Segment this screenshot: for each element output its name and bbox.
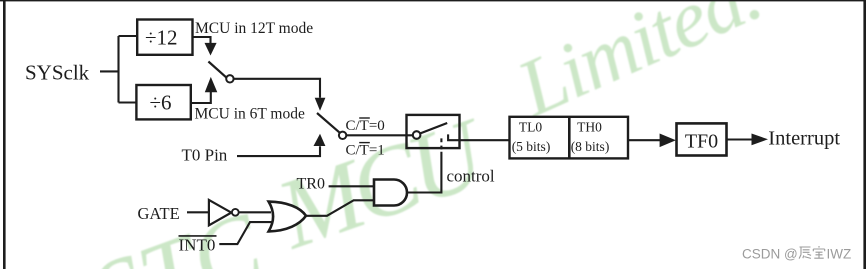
wire TH0 to TF0 <box>628 139 661 141</box>
svg-text:MCU in 12T mode: MCU in 12T mode <box>195 20 313 37</box>
wire TF0 to Interrupt <box>727 138 754 140</box>
TF0 box <box>677 123 727 155</box>
svg-text:INT0: INT0 <box>179 235 216 254</box>
svg-text:control: control <box>447 167 495 186</box>
svg-text:Interrupt: Interrupt <box>768 128 840 150</box>
svg-text:C/T=0: C/T=0 <box>346 118 385 134</box>
svg-text:C/T=1: C/T=1 <box>346 143 385 159</box>
svg-text:IWZ: IWZ <box>827 246 852 261</box>
divider box /6 <box>136 85 190 119</box>
TL0 TH0 register box <box>510 117 629 159</box>
svg-text:(8 bits): (8 bits) <box>571 139 610 154</box>
wire branch vertical <box>117 36 119 103</box>
arrowhead down into switch2 <box>315 98 326 111</box>
wire SYSclk to branch <box>100 70 119 72</box>
wire branch to div6 <box>119 101 137 103</box>
frame left border <box>3 0 6 269</box>
wire switch1 to switch2 <box>234 79 320 98</box>
control box <box>407 115 460 148</box>
svg-text:÷6: ÷6 <box>149 90 171 114</box>
arrowhead down from div12 into switch1 <box>205 43 217 56</box>
arrowhead up from div6 into switch1 <box>205 77 218 92</box>
AND gate U3 <box>374 180 407 206</box>
arrowhead to Interrupt <box>752 134 769 146</box>
wire OR output to AND input <box>306 200 374 216</box>
control switch lever <box>420 123 447 133</box>
frame top border <box>0 0 866 1</box>
svg-text:÷12: ÷12 <box>145 26 178 50</box>
wire control contact to TL0 <box>448 134 509 140</box>
wire AND output to control linkage <box>407 152 441 193</box>
wire T0 Pin <box>237 146 320 156</box>
control switch pivot circle <box>413 131 421 139</box>
switch2 lever <box>317 113 340 133</box>
frame right border <box>863 0 866 269</box>
TL0/TH0 divider <box>568 117 571 159</box>
wire inverter to OR gate <box>239 211 271 213</box>
CSDN credit <box>742 246 851 261</box>
svg-text:MCU in 6T mode: MCU in 6T mode <box>195 106 305 123</box>
inverter U1 triangle <box>209 200 231 225</box>
wire TR0 to AND input <box>329 185 374 187</box>
CJK glyph chen <box>799 247 811 259</box>
wire div12 output <box>193 37 211 44</box>
svg-text:GATE: GATE <box>138 204 180 223</box>
dashed linkage into control box <box>440 138 442 149</box>
overline INT0 <box>179 235 217 237</box>
svg-text:(5 bits): (5 bits) <box>512 139 551 154</box>
svg-text:T0 Pin: T0 Pin <box>182 146 228 165</box>
svg-text:TL0: TL0 <box>519 120 542 135</box>
svg-text:TF0: TF0 <box>685 131 718 153</box>
svg-text:TH0: TH0 <box>577 120 602 135</box>
switch1 contact circle <box>226 75 233 82</box>
svg-text:CSDN @: CSDN @ <box>742 246 798 261</box>
inverter U1 bubble <box>232 209 239 216</box>
wire branch to div12 <box>119 35 138 37</box>
switch2 contact circle <box>339 132 346 139</box>
wire GATE to inverter <box>187 211 209 213</box>
svg-text:Limited.: Limited. <box>504 0 773 134</box>
switch1 lever <box>208 62 226 78</box>
overline C/T=1 <box>359 142 370 144</box>
arrowhead into TF0 <box>660 134 676 148</box>
arrowhead up from T0 Pin into switch2 <box>314 134 326 146</box>
overline C/T=0 <box>359 117 370 119</box>
divider box /12 <box>137 20 192 55</box>
wire switch2 to control box <box>346 134 413 136</box>
svg-text:TR0: TR0 <box>297 175 325 192</box>
svg-text:SYSclk: SYSclk <box>25 61 90 85</box>
wire div6 output <box>191 92 211 103</box>
OR gate U2 <box>269 202 306 232</box>
CJK glyph bao <box>813 246 824 258</box>
wire INT0 to OR gate <box>219 222 271 244</box>
